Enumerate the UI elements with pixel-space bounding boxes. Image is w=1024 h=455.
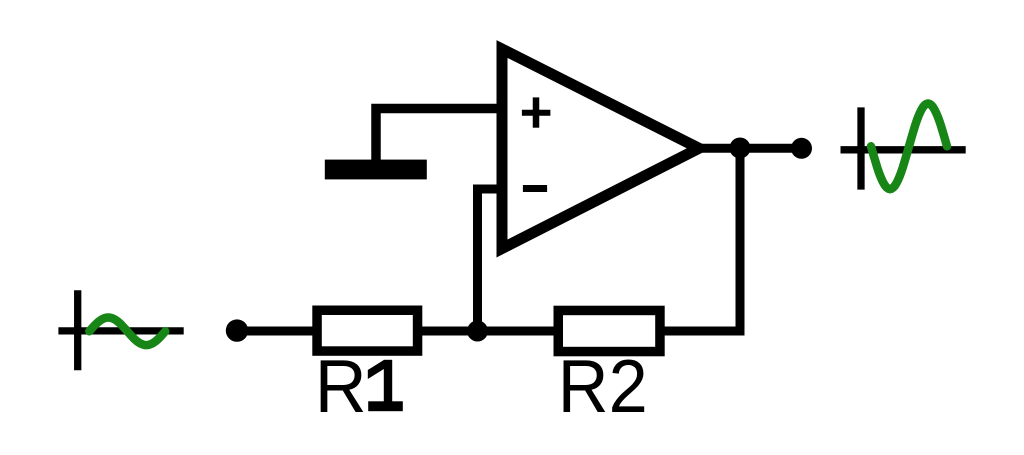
wire output (700, 144, 801, 153)
resistor R2 (558, 310, 660, 351)
wire input to R1 (237, 327, 315, 336)
wire R2 to output corner and up (662, 150, 740, 331)
output source axes (841, 107, 966, 189)
op-amp U1 triangle (502, 49, 699, 249)
wire junction to R2 (478, 327, 559, 336)
input source axes (58, 290, 183, 370)
svg-text:R: R (315, 344, 367, 428)
ground (325, 160, 427, 180)
wire noninverting input (376, 109, 502, 163)
wire feedback junction up to inverting input (478, 189, 503, 331)
wire R1 to junction (420, 327, 478, 336)
output terminal dot (791, 138, 812, 159)
output junction dot (730, 138, 751, 159)
output source sine Vout (871, 104, 947, 190)
node junction dot (467, 321, 488, 342)
input node dot (226, 319, 248, 341)
op-amp plus symbol (522, 97, 551, 127)
op-amp minus symbol (523, 185, 547, 192)
svg-text:R2: R2 (558, 344, 648, 428)
label R1 (315, 344, 403, 428)
input source sine Vin (89, 318, 165, 346)
resistor R1 (317, 310, 418, 351)
